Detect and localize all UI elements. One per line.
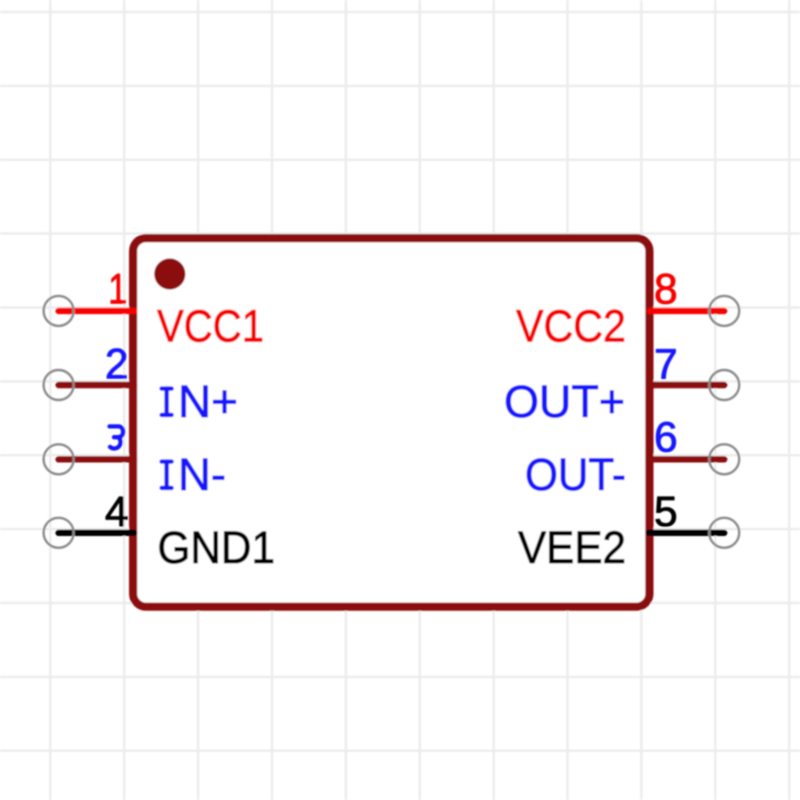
svg-text:N+: N+ <box>178 376 238 427</box>
svg-text:OUT-: OUT- <box>525 449 626 500</box>
svg-text:8: 8 <box>654 267 678 314</box>
svg-text:VCC1: VCC1 <box>157 301 264 352</box>
svg-text:2: 2 <box>105 342 129 389</box>
svg-text:N-: N- <box>178 449 226 500</box>
svg-text:VCC2: VCC2 <box>516 301 626 352</box>
svg-text:7: 7 <box>654 342 678 389</box>
svg-text:5: 5 <box>654 489 678 536</box>
svg-text:1: 1 <box>108 267 127 314</box>
svg-text:6: 6 <box>654 415 678 462</box>
svg-text:VEE2: VEE2 <box>518 522 626 573</box>
svg-text:OUT+: OUT+ <box>504 376 625 427</box>
svg-text:GND1: GND1 <box>158 522 276 573</box>
svg-text:4: 4 <box>105 489 129 536</box>
